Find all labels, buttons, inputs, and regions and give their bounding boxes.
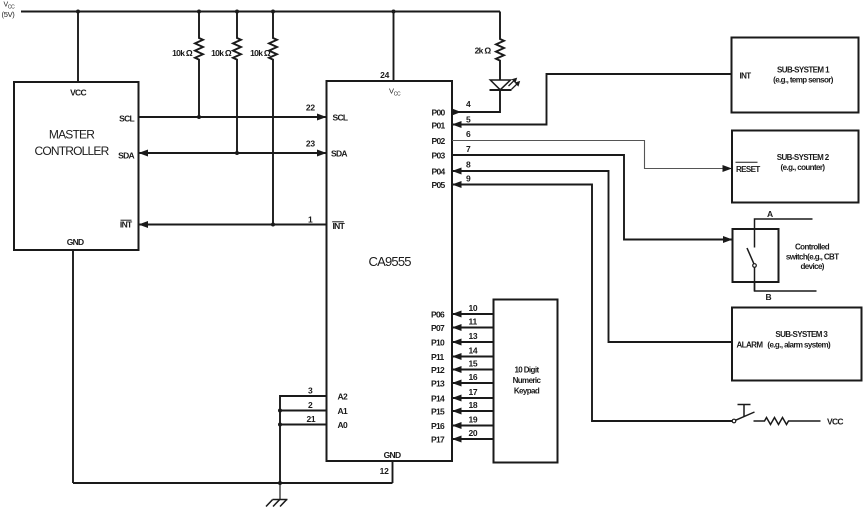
svg-text:(e.g., counter): (e.g., counter) (781, 163, 826, 172)
svg-text:P04: P04 (432, 167, 446, 177)
svg-text:SUB-SYSTEM 1: SUB-SYSTEM 1 (777, 66, 830, 75)
svg-text:(e.g., alarm system): (e.g., alarm system) (767, 341, 831, 350)
svg-text:VCC: VCC (70, 88, 86, 98)
svg-text:5: 5 (466, 115, 471, 125)
svg-text:CONTROLLER: CONTROLLER (34, 144, 109, 158)
svg-text:P14: P14 (431, 394, 445, 404)
svg-text:P02: P02 (432, 136, 446, 146)
svg-text:Keypad: Keypad (514, 387, 540, 396)
wire CA9555 pin 24 Vcc (380, 12, 393, 82)
svg-text:22: 22 (306, 102, 315, 112)
svg-text:2k Ω: 2k Ω (475, 46, 492, 56)
svg-text:12: 12 (380, 466, 389, 476)
wire master VCC drop (77, 12, 79, 83)
wire P05 pin9 to switch S2 (452, 174, 732, 422)
svg-text:RESET: RESET (736, 165, 760, 174)
svg-text:device): device) (801, 262, 825, 271)
resistor R2 10k pullup (SDA) (211, 12, 241, 154)
wire P01 pin5 from sub-system1 INT (452, 74, 732, 128)
svg-text:INT: INT (333, 221, 346, 231)
svg-text:21: 21 (307, 414, 316, 424)
junction at R2 column (235, 10, 239, 14)
svg-text:15: 15 (469, 359, 478, 369)
svg-text:10 Digit: 10 Digit (514, 366, 539, 375)
wire GND bus (73, 481, 393, 485)
wire P14 pin17 (452, 387, 494, 402)
resistor R5 (to VCC) (754, 418, 821, 425)
svg-text:switch(e.g., CBT: switch(e.g., CBT (786, 253, 839, 262)
svg-text:16: 16 (469, 372, 478, 382)
keypad box (494, 300, 558, 463)
svg-text:8: 8 (466, 160, 471, 170)
svg-text:P06: P06 (431, 310, 445, 320)
svg-text:17: 17 (469, 387, 478, 397)
svg-text:Controlled: Controlled (795, 242, 830, 251)
wire P13 pin16 (452, 372, 494, 387)
sub-system 3 box (732, 308, 862, 381)
svg-text:P12: P12 (431, 365, 445, 375)
svg-text:SUB-SYSTEM 2: SUB-SYSTEM 2 (777, 153, 830, 162)
wire P10 pin13 (452, 331, 494, 346)
svg-text:P07: P07 (431, 323, 445, 333)
wire CA9555 pin 12 GND (380, 461, 393, 483)
svg-text:SDA: SDA (331, 149, 347, 159)
svg-text:INT: INT (120, 220, 133, 230)
svg-text:ALARM: ALARM (737, 341, 764, 350)
svg-text:SDA: SDA (118, 151, 134, 161)
junction at master VCC column (76, 10, 80, 14)
master controller U1 box (14, 82, 139, 250)
svg-text:P10: P10 (431, 338, 445, 348)
wire A0 pin21 (278, 414, 327, 427)
wire SDA net (139, 138, 327, 156)
svg-text:P03: P03 (432, 151, 446, 161)
svg-text:B: B (766, 292, 772, 302)
resistor R3 10k pullup (INT) (250, 12, 277, 225)
wire P16 pin19 (452, 415, 494, 430)
svg-text:Numeric: Numeric (513, 376, 542, 385)
svg-text:P15: P15 (431, 407, 445, 417)
wire P00 pin4 to LED (452, 90, 500, 116)
svg-text:GND: GND (67, 237, 84, 247)
svg-text:A1: A1 (338, 406, 348, 416)
svg-text:MASTER: MASTER (49, 128, 95, 142)
svg-text:P13: P13 (431, 379, 445, 389)
svg-text:23: 23 (306, 138, 315, 148)
svg-text:6: 6 (466, 129, 471, 139)
svg-text:4: 4 (466, 99, 471, 109)
LED D1 (490, 78, 521, 90)
svg-text:10: 10 (469, 303, 478, 313)
svg-text:1: 1 (308, 215, 313, 225)
wire A2 pin3 (280, 386, 327, 484)
wire P02 pin6 to sub-system2 RESET (452, 129, 732, 172)
svg-text:P17: P17 (431, 435, 445, 445)
svg-text:10k Ω: 10k Ω (250, 48, 271, 58)
svg-text:(5V): (5V) (2, 10, 16, 19)
wire SCL net (139, 102, 327, 120)
wire P06 pin10 (452, 303, 494, 318)
node VCC (5V) supply label (2, 2, 16, 19)
svg-text:20: 20 (469, 428, 478, 438)
junction at R1 column (197, 10, 201, 14)
junction at CA9555 pin24 column (392, 10, 396, 14)
sub-system 2 box (732, 131, 859, 203)
node B terminal (755, 282, 817, 302)
svg-text:INT: INT (740, 72, 752, 81)
svg-text:10k Ω: 10k Ω (172, 48, 193, 58)
svg-text:14: 14 (469, 346, 478, 356)
svg-text:P05: P05 (432, 180, 446, 190)
svg-text:GND: GND (384, 450, 401, 460)
ground symbol (266, 483, 288, 507)
wire master GND drop (72, 250, 74, 483)
svg-text:9: 9 (466, 174, 471, 184)
wire VCC top rail (21, 11, 500, 13)
svg-text:11: 11 (469, 317, 478, 327)
CA9555 U2 box (327, 81, 453, 461)
svg-text:P16: P16 (431, 421, 445, 431)
resistor R1 10k pullup (SCL) (172, 12, 203, 118)
wire P03 pin7 to controlled switch (452, 144, 733, 243)
svg-text:2: 2 (308, 400, 313, 410)
svg-text:SCL: SCL (333, 113, 348, 123)
sub-system 1 box (732, 38, 859, 113)
svg-text:A2: A2 (338, 392, 348, 402)
svg-text:24: 24 (380, 70, 389, 80)
wire P17 pin20 (452, 428, 494, 443)
svg-text:13: 13 (469, 331, 478, 341)
svg-text:P00: P00 (432, 108, 446, 118)
wire INT net (139, 215, 327, 229)
wire P07 pin11 (452, 317, 494, 332)
svg-text:CA9555: CA9555 (369, 254, 412, 269)
switch S2 (momentary to VCC) (732, 404, 754, 423)
svg-text:SCL: SCL (119, 114, 134, 124)
wire P12 pin15 (452, 359, 494, 374)
svg-text:A0: A0 (338, 420, 348, 430)
wire P11 pin14 (452, 346, 494, 361)
svg-text:(e.g., temp sensor): (e.g., temp sensor) (773, 75, 834, 84)
wire P15 pin18 (452, 400, 494, 415)
controlled switch box (733, 229, 779, 291)
wire A1 pin2 (278, 400, 327, 413)
controlled switch caption (786, 242, 839, 271)
wire P04 pin8 to sub-system3 ALARM (452, 160, 732, 343)
node A terminal (755, 209, 813, 229)
svg-text:VCC: VCC (827, 417, 843, 427)
svg-text:18: 18 (469, 400, 478, 410)
svg-text:A: A (767, 209, 773, 219)
svg-text:P01: P01 (432, 121, 446, 131)
resistor R4 2k (475, 12, 504, 80)
svg-text:19: 19 (469, 415, 478, 425)
svg-text:P11: P11 (431, 352, 445, 362)
svg-text:7: 7 (466, 144, 471, 154)
svg-text:SUB-SYSTEM 3: SUB-SYSTEM 3 (775, 330, 828, 339)
svg-text:3: 3 (308, 386, 313, 396)
junction at R3 column (271, 10, 275, 14)
svg-text:10k Ω: 10k Ω (211, 48, 232, 58)
